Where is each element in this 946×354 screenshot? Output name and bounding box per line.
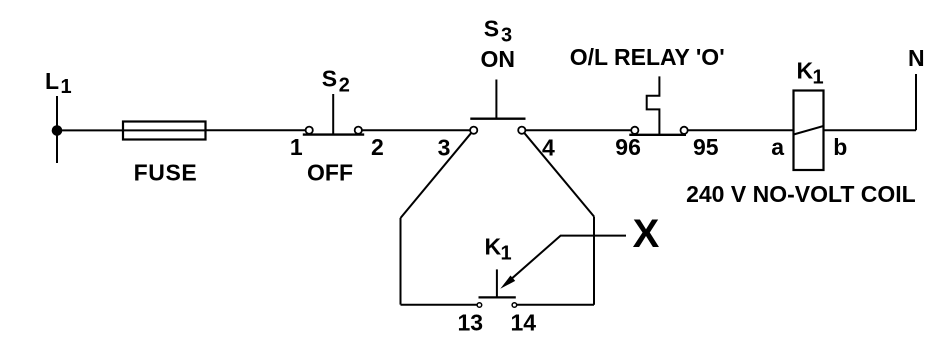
svg-text:95: 95: [693, 134, 719, 160]
contact K1 terminal circle 13: [477, 303, 482, 308]
svg-text:1: 1: [813, 67, 824, 89]
wire latch left diagonal from terminal 3: [401, 133, 472, 218]
svg-text:1: 1: [61, 76, 72, 98]
svg-text:K: K: [485, 233, 502, 259]
wire terminal 4 to terminal 96: [526, 129, 631, 131]
svg-text:240 V NO-VOLT COIL: 240 V NO-VOLT COIL: [686, 181, 916, 207]
wire latch right vertical: [593, 217, 595, 305]
svg-text:2: 2: [339, 75, 350, 97]
svg-text:a: a: [771, 134, 784, 160]
switch S2 NC contact bar: [303, 133, 364, 135]
wire fuse to terminal 1: [206, 129, 306, 131]
svg-text:1: 1: [501, 242, 512, 264]
wire terminal 95 to coil a: [688, 129, 793, 131]
svg-text:3: 3: [501, 24, 512, 46]
svg-text:1: 1: [290, 134, 303, 160]
junction dot at L1: [52, 125, 63, 136]
svg-text:b: b: [833, 134, 847, 160]
contact K1 actuator stem: [496, 269, 498, 297]
svg-text:2: 2: [371, 134, 384, 160]
svg-text:ON: ON: [481, 46, 516, 72]
svg-text:OFF: OFF: [307, 160, 353, 186]
svg-text:L: L: [45, 68, 59, 94]
switch S2 terminal circle 2: [355, 127, 362, 134]
overload contact terminal circle 95: [681, 127, 688, 134]
svg-text:X: X: [633, 212, 660, 256]
wire N vertical: [915, 74, 917, 130]
switch S3 actuator stem: [495, 80, 497, 119]
leader line from X: [505, 236, 626, 285]
contact K1 terminal circle 14: [512, 303, 517, 308]
wire latch bottom left to terminal 13: [401, 304, 478, 306]
switch S3 terminal circle 3: [470, 127, 477, 134]
node L1 label: [45, 68, 72, 98]
wire latch bottom right from terminal 14: [517, 304, 594, 306]
svg-text:14: 14: [511, 310, 537, 336]
coil K1 diagonal: [794, 126, 824, 135]
wire L1 to fuse: [57, 129, 123, 131]
coil K1 body: [794, 91, 824, 171]
switch S3 NO contact bar: [470, 117, 525, 119]
svg-text:K: K: [797, 58, 814, 84]
overload contact terminal circle 96: [631, 127, 638, 134]
switch S2 terminal circle 1: [306, 127, 313, 134]
wire latch right diagonal to terminal 4: [525, 133, 595, 216]
wire through fuse: [123, 129, 206, 131]
svg-text:S: S: [484, 16, 499, 42]
contact K1 label: [485, 233, 512, 264]
svg-text:N: N: [908, 45, 925, 71]
switch S2 label: [322, 66, 350, 97]
switch S2 actuator stem: [332, 94, 334, 135]
coil K1 label: [797, 58, 824, 89]
svg-text:S: S: [322, 66, 337, 92]
wire latch left vertical: [400, 218, 402, 305]
fuse body: [123, 122, 206, 140]
contact K1 NO bar: [479, 296, 516, 298]
svg-text:13: 13: [458, 310, 484, 336]
leader arrowhead: [500, 276, 515, 289]
overload actuator step: [647, 76, 660, 134]
wire coil b to N: [824, 129, 916, 131]
svg-text:FUSE: FUSE: [134, 160, 198, 186]
wire terminal 2 to terminal 3: [362, 129, 470, 131]
switch S3 label: [484, 16, 512, 47]
svg-text:O/L RELAY 'O': O/L RELAY 'O': [570, 44, 725, 70]
svg-text:96: 96: [615, 134, 641, 160]
switch S3 terminal circle 4: [518, 127, 525, 134]
wire L1 vertical: [56, 96, 58, 163]
svg-text:3: 3: [438, 135, 451, 161]
overload contact bar: [629, 134, 686, 136]
